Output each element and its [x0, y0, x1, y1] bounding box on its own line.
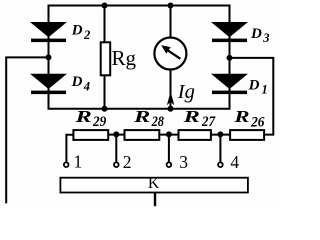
svg-text:2: 2: [83, 28, 90, 42]
terminal 2: [114, 162, 119, 167]
wire right branch: [229, 5, 231, 109]
label 4: [230, 152, 239, 172]
label D1: [248, 77, 268, 96]
wire K stem: [154, 193, 156, 206]
wire galvanometer branch: [170, 6, 172, 109]
terminal 1: [64, 162, 69, 167]
resistor Rg: [101, 42, 111, 75]
svg-text:1: 1: [262, 83, 268, 97]
wire R27 to R26: [212, 134, 230, 136]
node R29-R28 junction: [113, 131, 119, 137]
label 3: [179, 152, 188, 172]
wire top rail: [48, 5, 231, 7]
label Ig: [177, 81, 195, 103]
diode D3: [211, 22, 248, 42]
node top rail galvanometer junction: [168, 3, 174, 9]
svg-text:26: 26: [250, 114, 265, 130]
diode D2: [30, 22, 67, 42]
svg-text:Rg: Rg: [112, 46, 137, 70]
wire bottom rail: [48, 108, 231, 110]
svg-text:2: 2: [123, 152, 132, 172]
node R27-R26 junction: [217, 131, 223, 137]
wire tap to terminal 3: [168, 135, 170, 162]
terminal 3: [167, 162, 172, 167]
svg-text:R: R: [133, 107, 151, 126]
node right branch D3-D1 junction: [227, 55, 233, 61]
svg-text:29: 29: [92, 114, 107, 130]
label D2: [71, 23, 90, 43]
node bottom rail galvanometer junction: [168, 106, 174, 112]
diode D1: [211, 74, 248, 94]
svg-text:4: 4: [83, 79, 90, 93]
wire R28 to R27: [160, 134, 178, 136]
svg-text:R: R: [74, 107, 92, 126]
label K: [148, 175, 160, 192]
node R28-R27 junction: [166, 131, 172, 137]
galvanometer U1: [154, 38, 186, 70]
current arrow Ig: [167, 91, 174, 105]
resistor R28: [125, 130, 160, 140]
svg-text:K: K: [148, 175, 160, 192]
label R26: [233, 107, 265, 130]
diode D4: [30, 74, 67, 94]
svg-text:D: D: [250, 26, 262, 42]
svg-text:Ig: Ig: [177, 81, 195, 103]
terminal 4: [218, 162, 223, 167]
node left branch D2-D4 junction: [46, 54, 52, 60]
label 1: [74, 152, 83, 172]
wire left branch: [48, 5, 50, 109]
label D4: [71, 74, 90, 93]
label D3: [250, 26, 269, 45]
svg-text:28: 28: [151, 114, 165, 130]
svg-text:1: 1: [74, 152, 83, 172]
node top rail Rg junction: [102, 3, 108, 9]
wire left tap to left edge and down: [6, 57, 48, 203]
svg-text:D: D: [71, 74, 83, 90]
wire R29 left stub to terminal 1: [66, 135, 73, 162]
resistor R27: [179, 130, 211, 140]
svg-text:27: 27: [201, 114, 216, 130]
switch box K: [60, 178, 248, 193]
svg-text:R: R: [182, 107, 200, 126]
svg-text:3: 3: [179, 152, 188, 172]
svg-text:R: R: [233, 107, 250, 126]
wire R29 to R28: [109, 134, 124, 136]
label 2: [123, 152, 132, 172]
svg-text:D: D: [248, 77, 260, 93]
wire right tap to right edge down to R26: [230, 58, 274, 135]
svg-text:4: 4: [230, 152, 239, 172]
svg-text:3: 3: [262, 31, 269, 45]
label R27: [182, 107, 215, 130]
label Rg: [112, 46, 137, 70]
wire tap to terminal 2: [115, 135, 117, 162]
label R28: [133, 107, 165, 130]
node bottom rail Rg junction: [102, 106, 108, 112]
wire Rg branch: [104, 6, 106, 109]
label R29: [74, 107, 107, 130]
wire tap to terminal 4: [219, 135, 221, 162]
resistor R26: [230, 130, 264, 140]
resistor R29: [73, 130, 108, 140]
svg-text:D: D: [71, 23, 83, 39]
